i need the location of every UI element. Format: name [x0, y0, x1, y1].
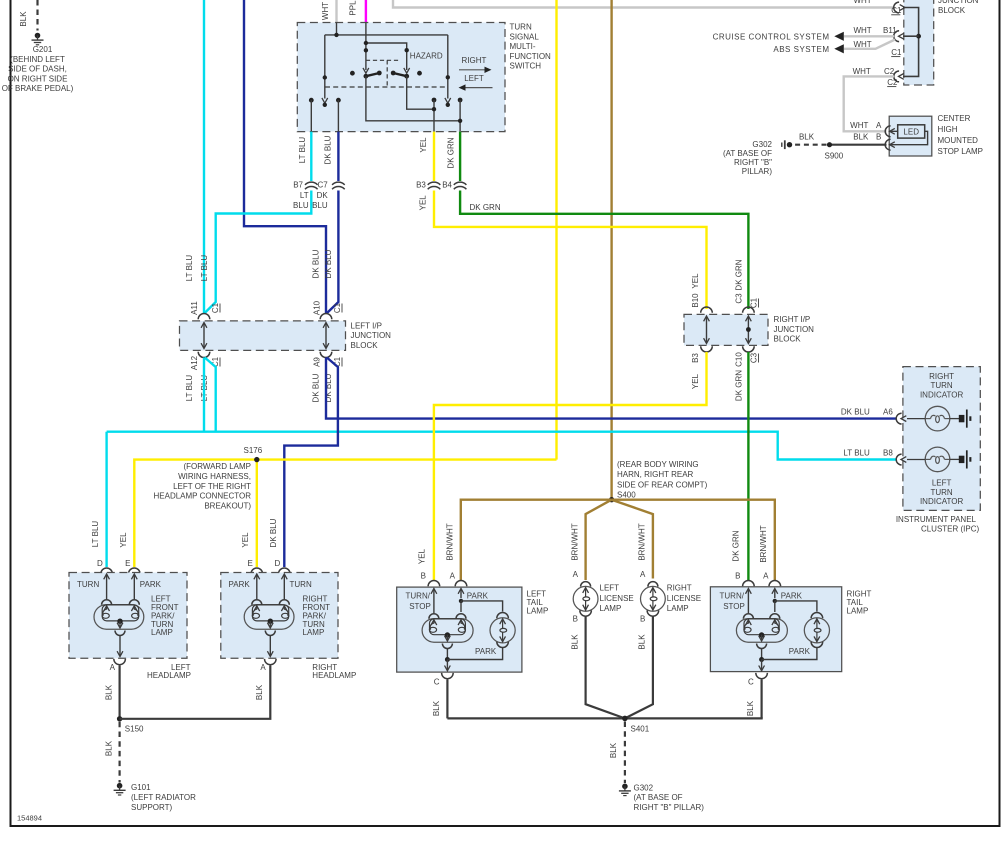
svg-text:B: B: [640, 614, 645, 623]
svg-text:A: A: [573, 570, 579, 579]
ground G101: [117, 783, 123, 789]
svg-text:DK GRN: DK GRN: [470, 203, 501, 212]
splice S150: [117, 716, 122, 721]
right tail bulb bottom connector: [761, 649, 763, 660]
svg-text:A: A: [110, 663, 116, 672]
wire YEL B3 to left tail lamp B: [434, 352, 707, 581]
svg-text:SUPPORT): SUPPORT): [131, 803, 173, 812]
svg-text:JUNCTION: JUNCTION: [938, 0, 979, 5]
svg-text:CLUSTER (IPC): CLUSTER (IPC): [921, 525, 980, 534]
svg-text:CRUISE CONTROL SYSTEM: CRUISE CONTROL SYSTEM: [713, 32, 830, 41]
svg-text:PARK: PARK: [140, 580, 162, 589]
svg-text:BLK: BLK: [255, 684, 264, 700]
svg-text:TURN: TURN: [77, 580, 99, 589]
svg-text:LEFT OF THE RIGHT: LEFT OF THE RIGHT: [173, 482, 251, 491]
wire LT BLU horizontal run to IPC B8: [107, 432, 897, 460]
svg-text:DK BLU: DK BLU: [269, 518, 278, 547]
wire BRN/WHT S400 to right tail lamp A: [612, 500, 775, 581]
switch hazard feed: [366, 23, 407, 71]
svg-text:G101: G101: [131, 783, 151, 792]
svg-text:BLK: BLK: [104, 684, 113, 700]
svg-text:PARK: PARK: [229, 580, 251, 589]
LED module: [898, 125, 925, 138]
svg-text:MOUNTED: MOUNTED: [938, 136, 979, 145]
svg-text:C: C: [748, 678, 754, 687]
splice S401: [622, 716, 628, 722]
left front lamp interior: [106, 574, 108, 599]
wire LT BLU A12 branch 1: [203, 358, 205, 432]
svg-text:(AT BASE OF: (AT BASE OF: [723, 149, 772, 158]
svg-text:LAMP: LAMP: [667, 604, 689, 613]
svg-text:LT: LT: [300, 191, 309, 200]
svg-text:BREAKOUT): BREAKOUT): [204, 501, 251, 510]
svg-text:E: E: [247, 559, 252, 568]
wire WHT to ABS system: [844, 40, 895, 49]
svg-text:YEL: YEL: [691, 273, 700, 289]
svg-text:YEL: YEL: [419, 137, 428, 153]
svg-text:CENTER: CENTER: [938, 114, 971, 123]
connector C10 bottom: [743, 346, 755, 352]
svg-text:DK GRN: DK GRN: [447, 137, 456, 168]
ground G302 bottom: [622, 784, 628, 790]
svg-text:WHT: WHT: [853, 40, 871, 49]
connector B stop lamp: [885, 139, 890, 150]
wire WHT C2 to stop lamp A: [844, 76, 894, 131]
wire DK GRN B4 to C3 right junction block: [460, 191, 748, 310]
svg-text:LICENSE: LICENSE: [600, 594, 634, 603]
svg-text:RIGHT "B": RIGHT "B": [734, 158, 772, 167]
svg-text:LICENSE: LICENSE: [667, 594, 701, 603]
wire LT BLU A12 branch 2: [205, 358, 216, 432]
connector C2: [894, 71, 899, 82]
svg-text:LT BLU: LT BLU: [185, 375, 194, 402]
svg-text:ABS SYSTEM: ABS SYSTEM: [773, 45, 829, 54]
svg-text:WIRING HARNESS,: WIRING HARNESS,: [178, 472, 251, 481]
svg-text:BRN/WHT: BRN/WHT: [446, 523, 455, 560]
svg-text:(BEHIND LEFT: (BEHIND LEFT: [10, 55, 65, 64]
svg-text:TURN/: TURN/: [406, 591, 431, 600]
svg-text:LEFT: LEFT: [932, 479, 952, 488]
left tail bulb bottom connector: [446, 649, 448, 660]
svg-text:A: A: [450, 572, 456, 581]
svg-text:C10: C10: [735, 352, 744, 367]
svg-text:G302: G302: [752, 140, 772, 149]
svg-text:HARN, RIGHT REAR: HARN, RIGHT REAR: [617, 470, 694, 479]
wire BLK S401 to G302 (dashed): [624, 722, 626, 784]
right tail park bulb: [811, 612, 823, 618]
svg-text:A9: A9: [313, 357, 322, 367]
svg-text:C7: C7: [317, 181, 328, 190]
svg-text:HIGH: HIGH: [938, 125, 958, 134]
wire BRN/WHT long vertical to S400: [610, 0, 612, 498]
connector A12: [198, 352, 210, 358]
svg-text:B3: B3: [416, 181, 426, 190]
svg-text:DK BLU: DK BLU: [841, 407, 870, 416]
wire BLK to G201 (dashed): [36, 0, 38, 31]
svg-text:A12: A12: [190, 355, 199, 370]
connector D left front: [101, 568, 113, 574]
wire YEL switch to B3: [433, 132, 435, 181]
wire LT BLU B7 to A11: [205, 191, 312, 314]
switch pole levers: [366, 73, 379, 76]
wire BLK right tail C to S401: [760, 680, 762, 719]
connector A right license: [648, 582, 658, 587]
svg-text:C1: C1: [750, 297, 759, 308]
wire BRN/WHT S400 to left tail lamp A: [461, 500, 612, 581]
connector E right front: [251, 568, 263, 574]
svg-text:LAMP: LAMP: [151, 628, 173, 637]
wire BLK stop lamp to S900: [830, 144, 887, 146]
svg-text:RIGHT: RIGHT: [929, 372, 954, 381]
svg-text:INDICATOR: INDICATOR: [920, 497, 963, 506]
svg-text:JUNCTION: JUNCTION: [351, 331, 392, 340]
svg-text:WHT: WHT: [321, 2, 330, 20]
svg-text:PARK: PARK: [789, 647, 811, 656]
wire BRN/WHT S400 to left license lamp: [586, 500, 612, 580]
svg-text:DK BLU: DK BLU: [324, 249, 333, 278]
junction block internal pass-through arrows: [203, 324, 205, 348]
svg-text:B3: B3: [691, 353, 700, 363]
svg-text:PARK: PARK: [781, 591, 803, 600]
svg-text:STOP: STOP: [723, 602, 745, 611]
wire DK BLU from top to A10: [244, 0, 326, 313]
svg-text:A10: A10: [313, 300, 322, 315]
connector C right tail: [756, 673, 768, 679]
wire YEL S176 horizontal run: [134, 460, 556, 567]
svg-text:WHT: WHT: [853, 0, 871, 5]
instrument panel cluster box: [903, 367, 980, 511]
wire BLK left front to S150: [118, 666, 120, 719]
connector D right front: [279, 568, 291, 574]
svg-text:DK BLU: DK BLU: [312, 249, 321, 278]
wire BRN/WHT S400 to right license lamp: [612, 500, 653, 579]
svg-text:G302: G302: [634, 783, 654, 792]
connector B8: [896, 454, 901, 465]
svg-text:A: A: [876, 121, 882, 130]
wire BLK S401 horizontal: [447, 717, 762, 719]
svg-text:SIGNAL: SIGNAL: [510, 32, 540, 41]
connector B right license: [647, 610, 659, 616]
hazard linkage dashes: [325, 86, 448, 88]
svg-text:B: B: [573, 614, 578, 623]
svg-text:FUNCTION: FUNCTION: [510, 52, 552, 61]
svg-text:TURN: TURN: [930, 488, 952, 497]
svg-text:RIGHT I/P: RIGHT I/P: [774, 315, 811, 324]
svg-text:B: B: [421, 572, 426, 581]
svg-text:WHT: WHT: [853, 67, 871, 76]
svg-text:BLU: BLU: [293, 201, 309, 210]
wire LT BLU switch to B7: [310, 132, 312, 181]
svg-text:(LEFT RADIATOR: (LEFT RADIATOR: [131, 793, 196, 802]
right tail lamp box: [710, 587, 841, 672]
wire DK GRN switch to B4: [459, 132, 461, 181]
connector B4: [454, 182, 467, 185]
connector A10: [320, 314, 332, 320]
connector A right tail: [769, 580, 781, 586]
feed symbol right turn: [959, 415, 965, 422]
turn signal multi-function switch box: [297, 23, 505, 132]
svg-text:D: D: [97, 559, 103, 568]
svg-text:SWITCH: SWITCH: [510, 62, 542, 71]
splice S900: [827, 142, 832, 147]
connector B left license: [580, 610, 592, 616]
svg-text:JUNCTION: JUNCTION: [774, 325, 815, 334]
svg-text:BLK: BLK: [432, 700, 441, 716]
right junction block (top, cut): [904, 0, 934, 85]
svg-text:LT BLU: LT BLU: [91, 521, 100, 548]
svg-text:BLOCK: BLOCK: [774, 335, 802, 344]
svg-text:C2: C2: [887, 78, 898, 87]
svg-text:HAZARD: HAZARD: [410, 52, 443, 61]
connector B3: [428, 182, 441, 185]
left license lamp bulb: [573, 586, 598, 611]
svg-text:LEFT: LEFT: [600, 584, 620, 593]
svg-text:D: D: [275, 559, 281, 568]
svg-text:C3: C3: [750, 352, 759, 363]
svg-text:C1: C1: [891, 48, 902, 57]
svg-text:WHT: WHT: [850, 121, 868, 130]
svg-text:BLK: BLK: [799, 133, 815, 142]
right tail dual filament bulb: [736, 619, 787, 643]
svg-text:C1: C1: [891, 6, 902, 15]
svg-text:TURN/: TURN/: [720, 591, 745, 600]
connector A9: [320, 352, 332, 358]
connector A right front: [265, 659, 277, 665]
connector A left front: [114, 659, 126, 665]
svg-text:BLOCK: BLOCK: [938, 6, 966, 15]
svg-text:LEFT I/P: LEFT I/P: [351, 321, 382, 330]
feed symbol left turn: [959, 456, 965, 463]
svg-text:BLK: BLK: [19, 11, 28, 27]
wire DK GRN C10 to right tail lamp B: [747, 352, 749, 581]
svg-text:LEFT: LEFT: [464, 74, 484, 83]
svg-text:C1: C1: [211, 302, 220, 313]
svg-text:HEADLAMP CONNECTOR: HEADLAMP CONNECTOR: [154, 492, 252, 501]
svg-text:DK BLU: DK BLU: [324, 135, 333, 164]
right front lamp interior: [256, 574, 258, 599]
svg-text:S150: S150: [125, 725, 144, 734]
right license lamp bulb: [641, 586, 666, 611]
svg-text:BRN/WHT: BRN/WHT: [570, 523, 579, 560]
switch interior feed bus: [325, 23, 448, 99]
wire DK BLU A9 to IPC A6: [326, 358, 897, 419]
svg-text:LAMP: LAMP: [303, 628, 325, 637]
svg-text:C3: C3: [735, 293, 744, 304]
svg-text:C1: C1: [333, 302, 342, 313]
svg-text:BLK: BLK: [853, 132, 869, 141]
svg-text:YEL: YEL: [419, 195, 428, 211]
svg-text:PPL: PPL: [349, 0, 358, 16]
svg-text:PARK: PARK: [475, 647, 497, 656]
svg-text:ON RIGHT SIDE: ON RIGHT SIDE: [8, 74, 68, 83]
svg-text:G201: G201: [33, 45, 53, 54]
connector B left tail: [428, 581, 440, 587]
left front park/turn lamp box: [69, 573, 187, 659]
wire DK BLU switch to C7: [337, 132, 339, 181]
junction dot B11: [916, 34, 921, 39]
svg-text:RIGHT: RIGHT: [667, 584, 692, 593]
svg-text:YEL: YEL: [691, 373, 700, 389]
wire LT BLU down to left front lamp D: [105, 432, 107, 567]
svg-text:TURN: TURN: [510, 23, 532, 32]
wire BLK left license to S401: [586, 617, 625, 719]
svg-text:LT BLU: LT BLU: [843, 448, 870, 457]
svg-text:HEADLAMP: HEADLAMP: [147, 671, 191, 680]
left turn indicator bulb: [925, 447, 950, 472]
wire WHT to cruise control system: [844, 35, 894, 37]
svg-text:S401: S401: [631, 724, 650, 733]
right I/P junction block box: [684, 314, 768, 345]
svg-text:LAMP: LAMP: [847, 607, 869, 616]
connector C left tail: [442, 673, 454, 679]
svg-text:A6: A6: [883, 407, 893, 416]
svg-text:WHT: WHT: [853, 26, 871, 35]
connector E left front: [129, 568, 141, 574]
svg-text:C: C: [434, 678, 440, 687]
left tail park bulb: [497, 613, 509, 619]
svg-text:B8: B8: [883, 448, 893, 457]
ground G302 at B pillar (top): [784, 140, 786, 149]
svg-text:INDICATOR: INDICATOR: [920, 390, 963, 399]
svg-text:SIDE OF DASH,: SIDE OF DASH,: [8, 65, 67, 74]
wire DK BLU A9 to right front lamp D: [284, 358, 338, 568]
wire YEL B3 to B10 right junction block: [434, 191, 707, 310]
wire WHT feed to right junction block C1: [393, 0, 894, 8]
svg-text:E: E: [125, 559, 130, 568]
connector C3 top: [743, 307, 755, 313]
svg-text:BLK: BLK: [104, 740, 113, 756]
wire BLK right license to S401: [625, 617, 653, 719]
right block internal arrows: [706, 317, 708, 343]
center high mounted stop lamp box: [889, 116, 932, 156]
connector C7: [332, 182, 345, 185]
svg-text:A11: A11: [190, 301, 199, 315]
svg-text:S900: S900: [825, 152, 844, 161]
connector C1 top right: [894, 2, 899, 13]
svg-text:DK GRN: DK GRN: [735, 259, 744, 290]
svg-text:BLK: BLK: [609, 742, 618, 758]
svg-text:BLOCK: BLOCK: [351, 341, 379, 350]
svg-text:OF BRAKE PEDAL): OF BRAKE PEDAL): [2, 84, 74, 93]
connector B7: [305, 182, 318, 185]
svg-text:STOP LAMP: STOP LAMP: [938, 147, 984, 156]
connector B11: [894, 31, 899, 42]
svg-text:BLU: BLU: [312, 201, 328, 210]
svg-text:YEL: YEL: [241, 532, 250, 548]
wire YEL S176 branch to right front lamp E: [256, 460, 258, 567]
svg-text:A: A: [763, 572, 769, 581]
svg-text:B4: B4: [442, 181, 452, 190]
svg-text:TURN: TURN: [290, 580, 312, 589]
svg-text:YEL: YEL: [119, 532, 128, 548]
connector A left tail: [455, 581, 467, 587]
connector B10: [701, 307, 713, 313]
wire PPL into switch: [365, 0, 367, 23]
wire BLK S150 to right front lamp A: [120, 666, 271, 719]
svg-text:(AT BASE OF: (AT BASE OF: [634, 793, 683, 802]
svg-text:S176: S176: [244, 446, 263, 455]
svg-text:LT BLU: LT BLU: [200, 255, 209, 282]
switch fixed contacts: [350, 71, 355, 76]
svg-text:RIGHT: RIGHT: [462, 56, 487, 65]
svg-text:LT BLU: LT BLU: [298, 137, 307, 164]
svg-text:LAMP: LAMP: [600, 604, 622, 613]
left tail dual filament bulb: [422, 619, 473, 643]
connector B right tail: [743, 580, 755, 586]
wire YEL long vertical to S176 run: [555, 0, 557, 460]
svg-text:SIDE OF REAR COMPT): SIDE OF REAR COMPT): [617, 480, 708, 489]
svg-text:DK GRN: DK GRN: [735, 370, 744, 401]
svg-text:BLK: BLK: [746, 700, 755, 716]
right turn indicator bulb: [925, 406, 950, 431]
svg-text:MULTI-: MULTI-: [510, 42, 536, 51]
svg-text:B: B: [735, 572, 740, 581]
right front park/turn lamp box: [221, 573, 338, 659]
svg-text:S400: S400: [617, 491, 636, 500]
connector A6: [896, 413, 901, 424]
svg-text:INSTRUMENT PANEL: INSTRUMENT PANEL: [896, 515, 977, 524]
splice S400: [609, 497, 614, 502]
svg-text:BLK: BLK: [570, 634, 579, 650]
svg-text:154894: 154894: [17, 814, 42, 823]
svg-text:(REAR BODY WIRING: (REAR BODY WIRING: [617, 460, 699, 469]
svg-text:BLK: BLK: [638, 634, 647, 650]
switch mover output wires: [311, 76, 460, 131]
wire DK BLU C7 to A10: [327, 191, 338, 314]
svg-text:DK: DK: [317, 191, 329, 200]
svg-text:STOP: STOP: [409, 602, 431, 611]
left front bulb bottom connector: [119, 636, 121, 657]
connector A stop lamp: [885, 126, 890, 137]
svg-text:A: A: [260, 663, 266, 672]
svg-text:HEADLAMP: HEADLAMP: [312, 671, 356, 680]
svg-text:B7: B7: [293, 181, 303, 190]
svg-text:LAMP: LAMP: [527, 607, 549, 616]
left tail lamp box: [397, 587, 522, 672]
svg-text:DK GRN: DK GRN: [731, 530, 740, 561]
wire BLK S900 to G302 (dashed): [792, 144, 827, 146]
wire BLK S150 to G101 (dashed): [118, 722, 120, 783]
connector B3 bottom: [701, 346, 713, 352]
svg-text:(FORWARD LAMP: (FORWARD LAMP: [183, 462, 251, 471]
svg-text:YEL: YEL: [417, 548, 426, 564]
svg-text:LED: LED: [903, 128, 919, 137]
connector A left license: [581, 582, 591, 587]
splice S176: [254, 457, 259, 462]
right front bulb bottom connector: [269, 636, 271, 657]
svg-text:C2: C2: [884, 67, 895, 76]
svg-text:B11: B11: [883, 26, 897, 35]
svg-text:B: B: [876, 132, 881, 141]
wire LT BLU from top to A11: [203, 0, 205, 313]
svg-text:A: A: [640, 570, 646, 579]
ground G201: [35, 33, 41, 39]
svg-text:RIGHT "B" PILLAR): RIGHT "B" PILLAR): [634, 803, 705, 812]
svg-text:LT BLU: LT BLU: [185, 255, 194, 282]
svg-text:DK BLU: DK BLU: [312, 373, 321, 402]
svg-text:PILLAR): PILLAR): [742, 167, 773, 176]
svg-text:BRN/WHT: BRN/WHT: [638, 523, 647, 560]
svg-text:BRN/WHT: BRN/WHT: [759, 525, 768, 562]
svg-text:B10: B10: [691, 293, 700, 308]
svg-text:TURN: TURN: [930, 381, 952, 390]
svg-text:PARK: PARK: [467, 591, 489, 600]
connector A11: [198, 313, 210, 319]
left I/P junction block box: [180, 321, 346, 351]
wire BLK left tail C to S401: [446, 680, 448, 719]
wire WHT into switch: [335, 0, 337, 23]
